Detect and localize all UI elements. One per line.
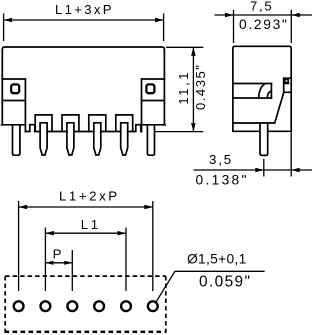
svg-text:3,5: 3,5	[209, 152, 233, 167]
svg-text:0.435": 0.435"	[193, 64, 208, 110]
svg-text:7,5: 7,5	[250, 0, 273, 13]
svg-text:0.293": 0.293"	[239, 17, 289, 32]
svg-text:0.138": 0.138"	[196, 172, 249, 187]
svg-text:L1+3xP: L1+3xP	[55, 2, 114, 17]
svg-text:Ø1,5+0,1: Ø1,5+0,1	[187, 251, 247, 266]
svg-text:P: P	[53, 247, 62, 262]
svg-text:L1: L1	[81, 217, 101, 232]
svg-text:0.059": 0.059"	[199, 273, 251, 290]
svg-text:11,1: 11,1	[176, 70, 191, 105]
svg-text:L1+2xP: L1+2xP	[59, 189, 120, 204]
